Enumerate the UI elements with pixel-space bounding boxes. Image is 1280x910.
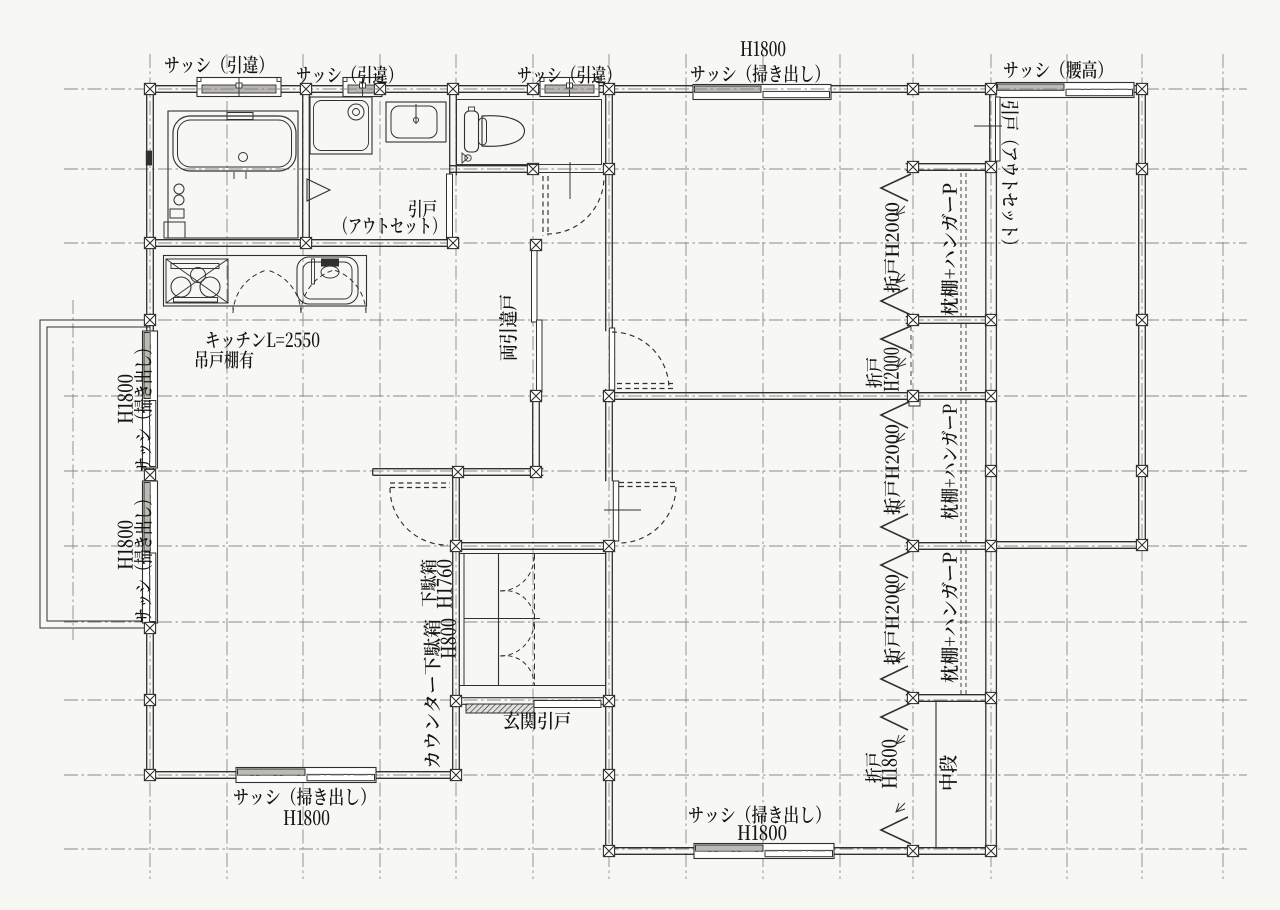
wall left outer — [147, 86, 154, 779]
bedroom-mid hinged door — [609, 328, 614, 390]
bathtub drain — [239, 153, 248, 162]
post K1 — [300, 237, 311, 248]
wall closet north — [906, 164, 995, 171]
bath door pull mark — [146, 151, 151, 165]
post C8 — [985, 540, 996, 551]
post T2 — [374, 83, 385, 94]
post H2 — [452, 466, 463, 477]
window washroom sash — [343, 78, 382, 97]
label folding door label b2 — [882, 740, 897, 788]
kitchen faucet — [312, 259, 315, 284]
label kitchen label — [207, 332, 320, 349]
unit bath room outline — [168, 111, 298, 238]
wall toilet south — [450, 166, 537, 173]
label sash label 1 — [165, 55, 264, 73]
window bedroom1 sash (waist-high) — [996, 83, 1134, 98]
closet shelf dashed lines — [961, 173, 966, 316]
kitchen double sliding door — [532, 250, 538, 322]
post K2 — [447, 237, 458, 248]
post C3 — [907, 314, 918, 325]
chudan shelf line — [935, 701, 937, 848]
wall top outer — [147, 86, 1146, 93]
post C6 — [985, 390, 996, 401]
window bedroom2 south sash — [694, 844, 834, 859]
label H1800 bottom L — [284, 810, 330, 825]
post P2 — [603, 769, 614, 780]
post H4 — [530, 390, 541, 401]
wall genkan west — [453, 469, 460, 779]
post T4 — [527, 83, 538, 94]
wall bedroom1 west — [990, 86, 997, 171]
folding door closet1 — [881, 174, 911, 201]
label outset door label line2 — [343, 216, 437, 234]
window living south sash — [236, 768, 376, 783]
washbasin vanity — [386, 102, 446, 142]
label west sash label 1 — [134, 349, 152, 471]
post NW — [144, 83, 155, 94]
post TO2 — [603, 163, 614, 174]
post G3 — [450, 695, 461, 706]
wall living south — [147, 772, 460, 779]
label shelf label 1 — [941, 184, 959, 316]
label folding door label 2 — [884, 425, 901, 515]
post SW — [144, 769, 155, 780]
wall hall east upper — [606, 86, 613, 332]
dining-hall hinged door — [390, 483, 450, 488]
wall bath east — [303, 86, 310, 247]
post R3 — [1136, 465, 1147, 476]
post G2 — [603, 540, 614, 551]
post L1 — [144, 237, 155, 248]
label sash label 4 — [691, 64, 820, 82]
label H1800 west2 — [118, 521, 133, 569]
folding door closet4 (chudan) — [881, 703, 911, 730]
label sash label 3 — [518, 65, 611, 83]
bathtub — [173, 116, 296, 171]
post L2 — [144, 314, 155, 325]
label H1800 bottom R — [738, 825, 786, 840]
shoe cabinet — [463, 554, 465, 686]
post B1 — [603, 845, 614, 856]
post B3 — [985, 845, 996, 856]
hanging cupboard dashed arch arcs — [233, 270, 267, 313]
post SE1 — [1136, 539, 1147, 550]
window bath sash — [197, 78, 281, 97]
label folding door label b1 — [865, 753, 882, 783]
wall bedroom2 west — [606, 542, 613, 855]
post C1 — [907, 161, 918, 172]
wall closet divider B — [906, 543, 995, 550]
window living west sash 1 — [143, 331, 158, 468]
label entrance label — [504, 712, 571, 730]
grid segments over windows — [197, 88, 281, 90]
post H1 — [603, 390, 614, 401]
post P1 — [450, 769, 461, 780]
post NE — [1136, 83, 1147, 94]
kitchen stove — [166, 259, 228, 303]
label folding door label 3 — [884, 575, 901, 665]
post T6 — [907, 83, 918, 94]
post G1 — [450, 540, 461, 551]
post H5 — [530, 239, 541, 250]
post R1 — [1136, 163, 1147, 174]
window toilet sash — [540, 78, 599, 97]
wall closet divider A — [906, 317, 995, 324]
post L4 — [144, 622, 155, 633]
post C5 — [907, 390, 918, 401]
label chudan label — [939, 755, 957, 789]
bedroom2 hinged door — [613, 481, 618, 541]
wall washroom east — [450, 86, 457, 176]
label folding door label s1 — [866, 358, 883, 388]
post R2 — [1136, 314, 1147, 325]
label south sash label L — [234, 787, 366, 805]
bathtub faucet — [227, 113, 253, 120]
post L5 — [144, 694, 155, 705]
bath shower mixer — [174, 184, 184, 194]
bath folding door — [307, 179, 330, 201]
label double sliding door label — [499, 295, 517, 361]
toilet hinged door — [543, 176, 548, 236]
leader bedroom1 door label — [974, 125, 1002, 127]
post T7 — [985, 83, 996, 94]
entrance wall + genkan sliding door — [453, 697, 613, 699]
post TO1 — [527, 163, 538, 174]
post C9 — [985, 465, 996, 476]
kitchen counter — [164, 256, 367, 307]
label H1800 top — [741, 41, 786, 56]
folding door closet small — [881, 326, 911, 353]
bath tub ticks — [233, 172, 235, 179]
post H3 — [530, 466, 541, 477]
toilet bowl — [482, 116, 525, 147]
wall bedroom2 south — [606, 848, 995, 855]
wall right outer — [1139, 86, 1146, 549]
bath counter — [164, 222, 185, 238]
toilet floor drain — [465, 155, 471, 161]
label folding door label 1 — [884, 203, 901, 293]
label outset door label R — [1001, 101, 1019, 244]
tick bedroom2 door — [604, 509, 641, 511]
label south sash label R — [689, 805, 821, 823]
label cupboard label — [196, 350, 253, 368]
folding door closet2 — [881, 401, 911, 428]
label counter shoe cab height — [441, 619, 456, 658]
post C10 — [907, 692, 918, 703]
label H1800 west1 — [118, 375, 133, 423]
post C7 — [907, 540, 918, 551]
wall bedrooms divider — [603, 393, 995, 400]
post T5 — [603, 83, 614, 94]
label shelf label 2 — [941, 405, 959, 520]
toilet seat hinge — [479, 118, 487, 145]
post B2 — [907, 845, 918, 856]
label shoe cab label — [420, 560, 436, 607]
genkan agari-kamachi lines — [459, 553, 606, 555]
door jamb stub — [909, 400, 920, 407]
tick toilet door — [569, 162, 571, 199]
window LDK top sash — [693, 85, 831, 100]
label shoe cab height — [437, 560, 452, 608]
wall hall west mid — [533, 393, 540, 476]
toilet tank — [465, 111, 479, 152]
veranda deck — [40, 320, 150, 628]
label folding door label s2 — [884, 348, 899, 392]
label counter shoe cab label — [423, 620, 440, 767]
kitchen sink — [297, 257, 358, 304]
post T1 — [300, 83, 311, 94]
wall closet east — [986, 164, 997, 855]
window living west sash 2 — [143, 481, 158, 623]
label sash label 2 — [297, 65, 393, 83]
wall dining hall divider — [373, 469, 544, 476]
label shelf label 3 — [941, 553, 959, 683]
post C11 — [985, 692, 996, 703]
label sash label 5 — [1004, 60, 1103, 78]
post C4 — [985, 314, 996, 325]
wall closet divider C — [906, 695, 995, 702]
wall bedroom1 south — [988, 542, 1146, 549]
folding door closet3 — [881, 551, 911, 578]
label west sash label 2 — [134, 500, 152, 622]
washing machine pan — [310, 97, 372, 154]
toilet room inner outline — [457, 100, 602, 165]
post L3 — [144, 469, 155, 480]
post G4 — [603, 695, 614, 706]
post T3 — [447, 83, 458, 94]
shoe cabinet door swing arcs — [500, 557, 534, 591]
wall kitchen north — [147, 240, 460, 247]
wall genkan north — [453, 543, 613, 550]
washroom outset sliding door — [447, 174, 453, 240]
post C2 — [985, 161, 996, 172]
bedroom1 outset sliding door — [996, 97, 1001, 161]
wall hall east mid — [606, 389, 613, 482]
label outset door label line1 — [409, 200, 436, 218]
